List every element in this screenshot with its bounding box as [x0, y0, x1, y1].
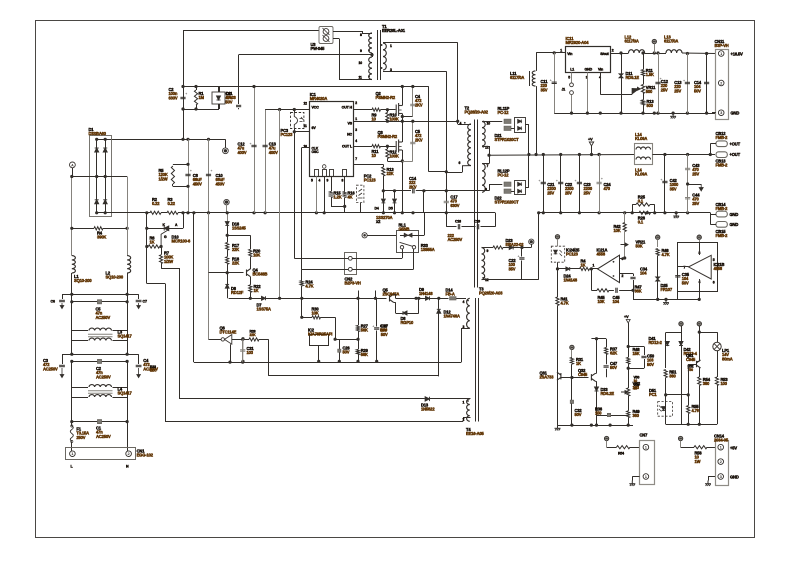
node: [401, 115, 404, 118]
wire: [624, 213, 626, 223]
node on bus5: [653, 112, 656, 115]
wire: [482, 163, 489, 165]
module RL11 pad a: [504, 119, 511, 123]
wire: [250, 292, 252, 298]
zener D42: [679, 342, 683, 346]
svg-text:R4815K: R4815K: [633, 347, 641, 356]
wire: [394, 302, 396, 304]
wire: [412, 143, 414, 161]
resistor R1: [194, 90, 197, 105]
node: [401, 85, 404, 88]
wire: [127, 331, 129, 341]
capacitor C27: [374, 328, 379, 329]
wire: [681, 447, 694, 449]
svg-text:Vin: Vin: [598, 68, 603, 72]
node: [300, 316, 303, 319]
node on bus: [264, 211, 267, 214]
capacitor C15: [444, 201, 449, 202]
capacitor C47: [604, 366, 609, 367]
CN2 pin circles: [348, 256, 352, 260]
wire: [183, 87, 185, 110]
wire: [113, 330, 128, 332]
wire: [657, 256, 659, 267]
wire: [644, 359, 646, 368]
optocoupler PC3 box: [291, 113, 304, 129]
transformer T1 primary winding lower: [369, 57, 372, 80]
optocoupler D51 box: [658, 402, 673, 417]
wire bus8: [666, 424, 717, 426]
diode D4: [382, 199, 386, 203]
thyristor D10 gate: [161, 230, 168, 247]
resistor R54: [617, 446, 631, 449]
wire: [557, 306, 559, 426]
node: [278, 297, 281, 300]
opto arrows D51: [659, 406, 662, 412]
opto led D51: [662, 407, 666, 411]
wire: [344, 198, 346, 207]
wire OUTH: [354, 109, 372, 111]
wire: [387, 110, 389, 113]
wire: [699, 326, 701, 332]
wire: [383, 197, 385, 199]
zener D11: [619, 74, 623, 78]
wire: [628, 364, 630, 388]
wire: [665, 341, 667, 368]
wire: [138, 354, 140, 364]
node: [623, 256, 626, 259]
node: [126, 227, 129, 230]
wire: [699, 368, 701, 377]
wire: [196, 105, 198, 109]
wire: [708, 477, 710, 481]
wire: [71, 177, 73, 256]
svg-text:L1: L1: [570, 68, 574, 72]
wire: [71, 442, 73, 451]
wire: [381, 109, 396, 111]
wire: [687, 54, 689, 114]
IC U1 body: [310, 102, 354, 177]
pin symbol P21: [555, 235, 559, 239]
bridge diode: [95, 200, 99, 204]
resistor R3: [167, 211, 178, 214]
wire: [424, 213, 426, 236]
svg-text:C3250V: C3250V: [575, 408, 583, 417]
wire: [712, 112, 714, 114]
svg-text:R3762K: R3762K: [610, 347, 618, 356]
resistor R11b: [641, 70, 644, 76]
svg-text:S/out: S/out: [600, 52, 609, 56]
node: [126, 300, 129, 303]
wire: [710, 213, 712, 225]
wire: [682, 52, 716, 55]
wire: [227, 272, 243, 274]
arrow C4: [137, 368, 141, 378]
inductor L11: [532, 71, 535, 86]
svg-text:R1722K: R1722K: [232, 243, 240, 252]
wire: [699, 367, 700, 369]
op-amp IC21 triangle: [598, 255, 620, 282]
svg-text:1: 1: [560, 49, 562, 53]
svg-text:R2010K: R2010K: [253, 249, 261, 258]
wire: [249, 268, 251, 270]
svg-text:2: 2: [622, 274, 624, 278]
wire: [571, 350, 573, 358]
wire: [331, 176, 333, 191]
resistor R49: [627, 411, 630, 418]
node: [456, 120, 459, 123]
wire: [375, 291, 377, 299]
wire Q3 source: [402, 150, 404, 213]
IC1 top pin circle: [322, 165, 326, 169]
wire: [230, 344, 232, 362]
resistor VR11: [641, 85, 644, 94]
node: [70, 300, 73, 303]
wire: [657, 239, 659, 247]
terminal relay circle: [362, 233, 367, 238]
node on bus7: [609, 424, 612, 427]
wire: [489, 184, 502, 186]
wire cap col: [560, 155, 562, 213]
capacitor C24: [597, 182, 602, 183]
bridge diode: [103, 148, 107, 152]
wire: [127, 341, 129, 355]
wire: [372, 53, 374, 57]
wire: [664, 155, 666, 213]
svg-text:8: 8: [360, 33, 362, 37]
wire C5 col: [412, 121, 414, 143]
wire: [71, 361, 73, 387]
resistor R12: [386, 149, 389, 159]
wire: [531, 244, 533, 247]
resistor R11: [372, 145, 381, 148]
svg-text:RL12PPC-12: RL12PPC-12: [498, 169, 510, 178]
wire: [495, 213, 497, 227]
node: [226, 234, 229, 237]
wire: [557, 262, 559, 269]
zener D6: [225, 284, 229, 288]
capacitor C43: [685, 168, 690, 169]
ground: [673, 213, 679, 218]
resistor R13: [382, 167, 385, 176]
IC2 regulator box: [310, 335, 329, 346]
wire: [294, 129, 296, 132]
wire: [446, 172, 448, 191]
wire: [387, 159, 389, 162]
wire bus2: [396, 298, 449, 300]
wire: [72, 330, 88, 332]
capacitor C44: [685, 198, 690, 199]
svg-text:GND: GND: [730, 475, 739, 480]
svg-text:A: A: [71, 164, 74, 168]
svg-text:4: 4: [460, 122, 462, 126]
svg-text:GND: GND: [585, 68, 593, 72]
wire y421 line: [165, 421, 463, 423]
node: [386, 145, 389, 148]
node: [95, 138, 98, 141]
wire: [606, 441, 608, 448]
wire: [591, 146, 593, 155]
svg-text:R4510K: R4510K: [598, 295, 606, 304]
node on bus: [315, 211, 318, 214]
resistor R22: [249, 285, 252, 293]
node: [241, 360, 244, 363]
CN11 pin1: [718, 51, 724, 57]
fuse CNGa: [716, 211, 727, 217]
arrow C7: [137, 303, 141, 309]
CN14 pin2: [718, 459, 724, 465]
transformer T2 primary: [468, 124, 471, 166]
svg-text:R4210K: R4210K: [614, 224, 622, 233]
wire bus2: [229, 298, 261, 300]
wire: [218, 87, 220, 93]
wire: [138, 294, 140, 299]
wire: [358, 332, 360, 350]
wire: [209, 339, 222, 341]
pin symbol P31: [570, 345, 574, 349]
wire Q2 drain: [402, 87, 404, 106]
node on bus5: [656, 112, 659, 115]
wire: [339, 339, 341, 361]
wire: [561, 377, 572, 379]
capacitor C3: [59, 365, 65, 366]
transistor Q31: [557, 372, 561, 380]
node: [181, 107, 184, 110]
optocoupler PC3 arrows: [300, 117, 304, 122]
ground: [555, 425, 561, 430]
svg-text:5: 5: [568, 76, 570, 80]
CN7 pin1: [643, 444, 649, 450]
node on bus: [382, 211, 385, 214]
connector CN11: [716, 50, 729, 120]
wire: [611, 415, 628, 417]
wire: [352, 258, 402, 260]
resistor R24: [300, 281, 303, 286]
wire: [362, 31, 364, 33]
wire: [428, 87, 430, 172]
wire: [628, 418, 630, 426]
pot arrow2: [621, 391, 628, 394]
transformer T4 secondary: [467, 399, 470, 421]
wire: [321, 317, 336, 319]
CN11 pin2: [718, 80, 724, 86]
wire: [558, 268, 566, 270]
node T1 pin9-10 junction: [370, 53, 373, 56]
wire rail: [72, 421, 127, 423]
node on bus5: [570, 112, 573, 115]
wire: [699, 332, 717, 334]
wire AC2 drop: [105, 176, 127, 178]
node: [664, 393, 667, 396]
node on bus: [192, 211, 195, 214]
resistor R45: [597, 289, 609, 292]
wire: [301, 269, 303, 280]
wire: [600, 94, 632, 96]
wire long run B: [179, 268, 181, 399]
node: [386, 108, 389, 111]
node: [656, 51, 659, 54]
capacitor C21: [541, 182, 546, 183]
wire: [624, 257, 626, 259]
wire: [394, 191, 396, 199]
svg-text:Vin: Vin: [567, 52, 572, 56]
wire pin7: [354, 164, 384, 166]
node on bus5: [599, 112, 602, 115]
transistor Q3 mosfet: [396, 140, 402, 153]
wire: [227, 235, 250, 237]
IC1 bottom pin square: [343, 170, 347, 177]
resistor R55: [687, 406, 690, 414]
terminal A circle: [70, 162, 76, 168]
transformer T3 winding: [482, 248, 485, 280]
node: [687, 423, 690, 426]
wire pin12 row: [265, 109, 310, 111]
connector CN7: [640, 441, 655, 485]
diode D2 boxed: [212, 92, 225, 104]
svg-text:5: 5: [713, 258, 715, 262]
wire: [161, 264, 163, 268]
svg-text:R4736K: R4736K: [635, 285, 643, 294]
wire C4 foot: [402, 116, 413, 118]
wire: [591, 269, 593, 290]
wire: [536, 86, 538, 154]
transformer T2 secondary B: [482, 164, 485, 193]
capacitor C22: [558, 182, 563, 183]
svg-text:GND: GND: [731, 111, 740, 116]
transformer T1 primary winding upper: [369, 33, 372, 53]
svg-text:D5: D5: [389, 207, 393, 211]
wire: [362, 33, 372, 35]
wire: [316, 176, 318, 212]
wire: [606, 369, 608, 378]
wire: [172, 184, 174, 186]
wire: [665, 378, 667, 425]
wire: [183, 31, 185, 87]
node: [338, 360, 341, 363]
node on sec bus: [645, 211, 648, 214]
wire: [458, 124, 471, 126]
node: [226, 211, 229, 214]
capacitor C5: [410, 142, 415, 143]
wire: [482, 247, 494, 249]
node: [627, 367, 630, 370]
wire: [333, 31, 362, 33]
resistor R30: [312, 316, 321, 319]
wire: [72, 387, 88, 389]
pin symbol P22: [656, 235, 660, 239]
wire: [457, 43, 459, 122]
svg-text:R151.2K: R151.2K: [334, 191, 342, 200]
wire: [127, 387, 129, 397]
wire: [699, 242, 701, 255]
wire: [643, 53, 645, 70]
wire: [173, 186, 188, 188]
wire bus drain: [183, 86, 429, 88]
wire: [147, 228, 164, 230]
wire: [71, 331, 73, 341]
wire: [113, 340, 128, 342]
node: [356, 297, 359, 300]
wire: [72, 340, 88, 342]
wire: [71, 273, 73, 302]
wire: [643, 76, 645, 85]
inductor L1: [72, 256, 76, 273]
dot: [482, 146, 484, 148]
capacitor C35: [675, 276, 680, 277]
bridge rectifier D1 box: [90, 136, 112, 217]
wire: [169, 228, 183, 230]
wire: [161, 212, 167, 214]
wire: [96, 139, 98, 213]
wire: [456, 298, 466, 300]
node: [619, 51, 622, 54]
wire: [62, 294, 64, 299]
wire: [333, 38, 339, 40]
resistor R36 pad: [607, 413, 610, 416]
module RL12 pad b: [504, 189, 511, 193]
wire: [513, 247, 531, 249]
arrow C6: [60, 303, 64, 309]
+V symbol b: [626, 320, 630, 324]
wire: [238, 108, 240, 109]
wire: [710, 214, 716, 216]
transistor Q51: [697, 360, 701, 368]
wire: [628, 368, 644, 370]
node on bus: [445, 211, 448, 214]
transformer T4 primary: [467, 298, 470, 328]
wire: [430, 398, 471, 400]
wire: [423, 191, 425, 213]
wire y399 line: [179, 398, 425, 400]
node: [556, 267, 559, 270]
svg-text:C18: C18: [455, 220, 461, 224]
resistor R5: [171, 166, 174, 184]
node: [186, 185, 189, 188]
ground: [705, 481, 711, 486]
wire: [632, 477, 634, 481]
node on sec bus: [653, 211, 656, 214]
node on sec bus: [598, 211, 601, 214]
node on bus5: [705, 112, 708, 115]
node: [686, 182, 689, 185]
wire: [367, 235, 396, 237]
svg-text:R414.7K: R414.7K: [561, 297, 569, 306]
node on bus: [401, 211, 404, 214]
zener D25: [656, 277, 660, 281]
wire rail2: [72, 301, 127, 303]
node: [445, 170, 448, 173]
wire: [358, 298, 360, 325]
node: [293, 108, 296, 111]
node: [356, 360, 359, 363]
wire: [383, 204, 385, 213]
optocoupler PC2 arrows: [358, 189, 363, 198]
resistor R46: [656, 249, 659, 256]
node on bus7: [627, 424, 630, 427]
node: [186, 138, 189, 141]
wire: [208, 213, 210, 340]
wire: [697, 361, 700, 363]
wire: [408, 313, 419, 315]
wire: [302, 317, 312, 319]
arrow C3: [60, 368, 64, 378]
node: [241, 337, 244, 340]
wire: [680, 441, 682, 448]
bridge diode: [95, 148, 99, 152]
wire: [482, 279, 539, 281]
CN14 pin1: [718, 444, 724, 450]
node on bus: [323, 211, 326, 214]
svg-text:VS: VS: [348, 122, 353, 126]
